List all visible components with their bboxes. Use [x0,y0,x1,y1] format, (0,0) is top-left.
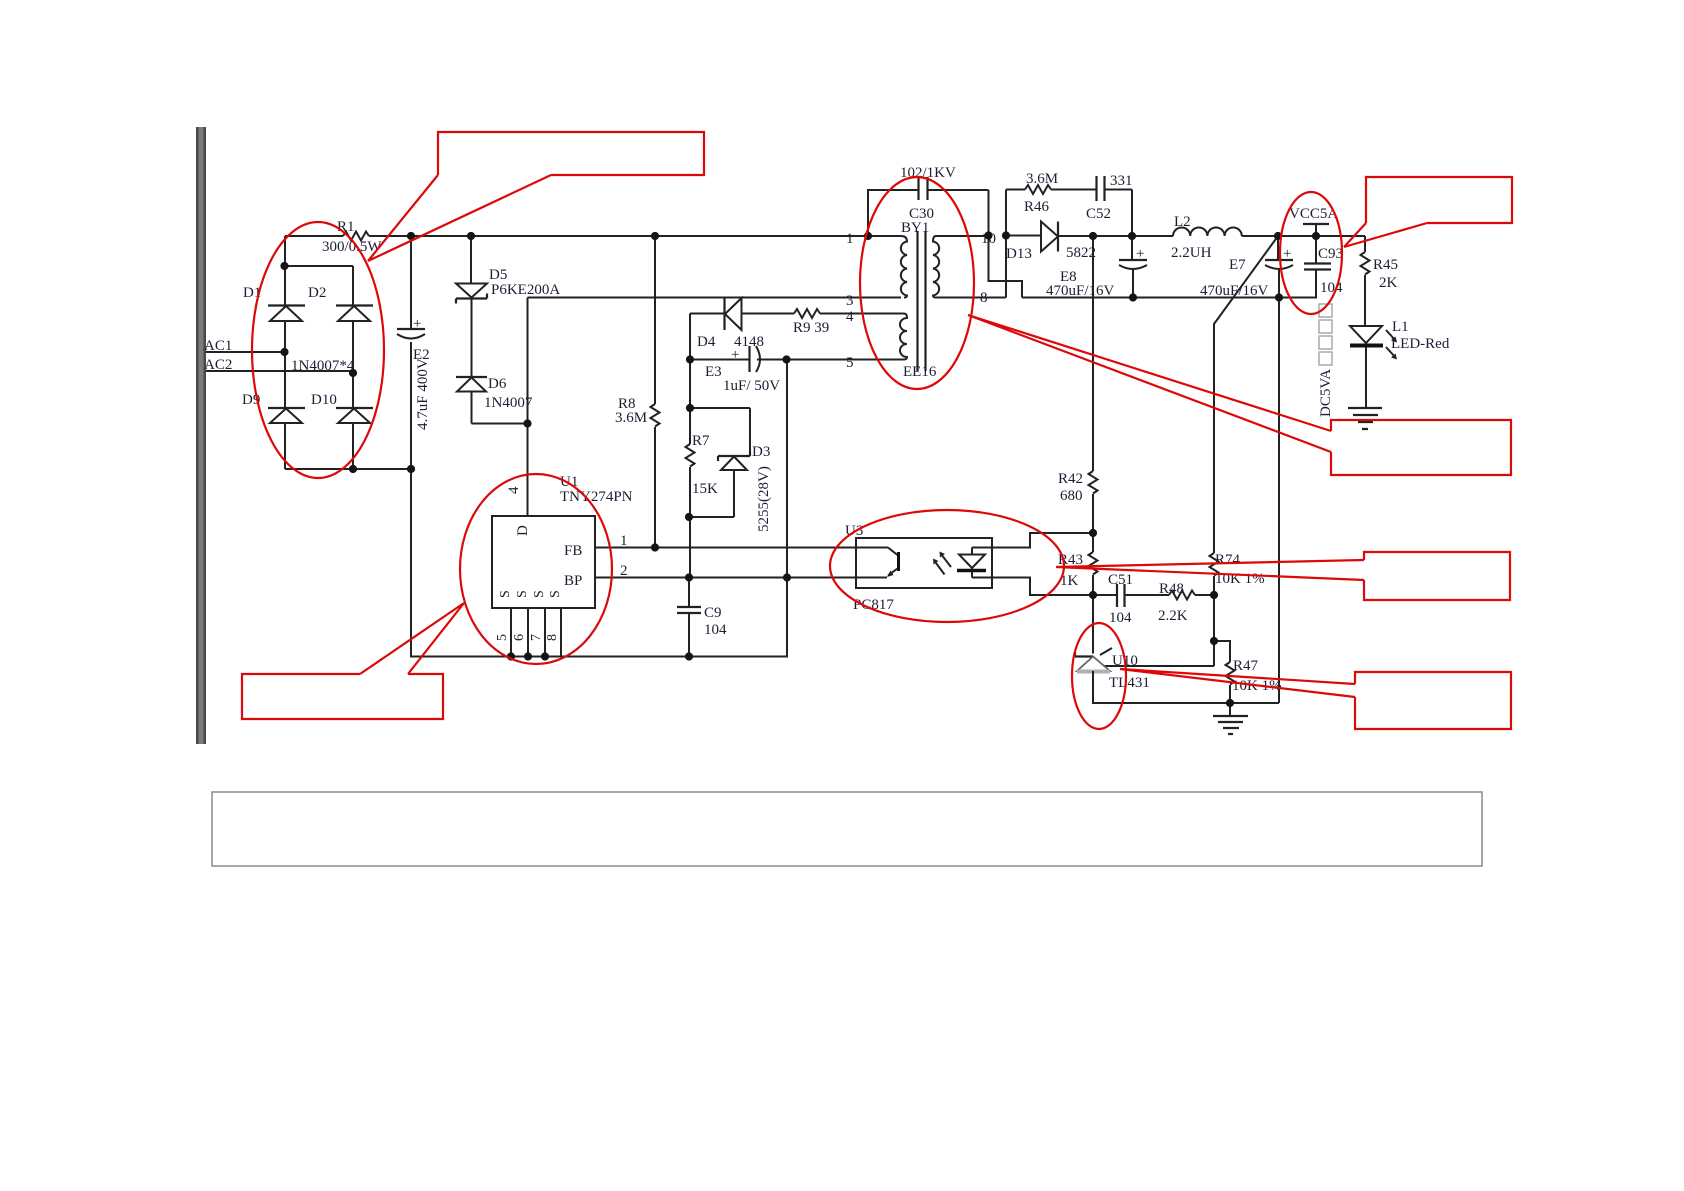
diode D2 [308,285,373,321]
svg-text:C93: C93 [1318,246,1343,262]
svg-text:S: S [532,590,547,598]
svg-text:R42: R42 [1058,471,1083,487]
TL431 U10 [1075,595,1279,703]
svg-text:104: 104 [1320,280,1343,296]
svg-text:1: 1 [846,231,854,247]
bridge rectifier wires [285,236,411,469]
resistor R47 [1214,641,1282,703]
capacitor E7 [1200,236,1293,299]
capacitor C52 [1086,173,1133,236]
svg-text:S: S [498,590,513,598]
wire: BP net [595,577,887,579]
svg-text:2K: 2K [1379,275,1398,291]
annotation ellipse (transformer) [860,177,974,389]
annotation ellipse (PC817) [830,510,1064,622]
callout box (transformer) [968,315,1511,475]
svg-text:TNY274PN: TNY274PN [560,489,633,505]
diode D13 [1006,222,1096,263]
wire: pin8 to D13 riser [1005,190,1007,298]
svg-text:DC5VA: DC5VA [1318,369,1334,417]
svg-text:R47: R47 [1233,658,1259,674]
svg-text:C51: C51 [1108,572,1133,588]
resistor R1 [322,219,382,255]
wire: output ground return drop [1278,298,1280,704]
svg-text:D: D [515,525,531,536]
svg-text:AC2: AC2 [204,357,232,373]
svg-text:331: 331 [1110,173,1133,189]
wire: opto anode to R42/R43 node [972,533,1093,548]
wire: secondary output bottom bus [1022,297,1317,299]
wire: +rail after D13 [1093,235,1365,237]
svg-text:R45: R45 [1373,257,1398,273]
callout box (PC817) [1056,552,1510,600]
resistor R8 [615,236,660,548]
svg-text:1N4007*4: 1N4007*4 [291,358,355,374]
resistor R9 [793,309,904,336]
annotation ellipse (bridge rectifier) [252,222,384,478]
svg-text:3: 3 [846,293,854,309]
diode D4 [690,298,794,360]
diode D9 [242,392,305,423]
vertical gray label DC5VA [1318,304,1334,417]
svg-text:S: S [515,590,530,598]
optocoupler U3 PC817 [845,523,992,613]
wire: FB net [595,547,888,549]
svg-text:L2: L2 [1174,214,1191,230]
wire: AC1 input [206,351,285,353]
bottom caption box [212,792,1482,866]
IC U1 TNY274PN [492,424,633,657]
svg-text:TL431: TL431 [1109,675,1150,691]
callout box (top-left) [368,132,704,261]
callout box (U1) [242,603,464,719]
svg-text:1uF/ 50V: 1uF/ 50V [723,378,780,394]
capacitor C51 [1093,572,1169,626]
svg-text:4: 4 [506,486,522,494]
wire: AC2 input [206,370,353,372]
svg-text:680: 680 [1060,488,1083,504]
capacitor C9 [677,578,727,657]
svg-text:C52: C52 [1086,206,1111,222]
annotation ellipse (VCC5A) [1280,192,1342,314]
svg-text:104: 104 [704,622,727,638]
svg-text:4.7uF 400V: 4.7uF 400V [415,358,431,430]
capacitor E3 [690,346,904,394]
capacitor E8 [1046,236,1147,299]
annotation ellipse (U1) [460,474,612,664]
svg-text:BP: BP [564,573,582,589]
wire: TL431 ref [1104,665,1214,667]
TVS D5 [456,236,560,304]
diode D10 [311,392,373,423]
svg-text:C9: C9 [704,605,722,621]
svg-text:E3: E3 [705,364,722,380]
svg-text:L1: L1 [1392,319,1409,335]
svg-text:+: + [413,316,421,332]
svg-text:AC1: AC1 [204,338,232,354]
svg-text:D3: D3 [752,444,770,460]
svg-text:8: 8 [980,290,988,306]
wire: HV+ top bus [285,235,868,237]
diode D1 [243,285,305,321]
svg-text:EE16: EE16 [903,364,937,380]
svg-text:C30: C30 [909,206,934,222]
resistor R46 [1006,171,1096,215]
transformer BY1 primary winding [846,231,907,309]
svg-text:R7: R7 [692,433,710,449]
svg-text:2.2UH: 2.2UH [1171,245,1212,261]
svg-text:R9 39: R9 39 [793,320,829,336]
svg-text:D13: D13 [1006,246,1032,262]
zener D3 [689,408,772,532]
callout box (TL431) [1120,669,1511,729]
svg-text:E7: E7 [1229,257,1246,273]
junction dots [280,231,1320,707]
svg-text:7: 7 [529,634,544,641]
capacitor C93 [1304,236,1343,298]
wire: opto cathode to TL431 node [972,578,1093,596]
svg-text:1N4007: 1N4007 [484,395,533,411]
svg-text:3.6M: 3.6M [615,410,647,426]
LED L1 [1350,319,1450,408]
svg-text:3.6M: 3.6M [1026,171,1058,187]
transformer BY1 aux winding [787,220,937,380]
svg-text:R74: R74 [1215,552,1241,568]
ground (LED) [1348,408,1382,429]
svg-text:D10: D10 [311,392,337,408]
capacitor E2 [397,236,431,469]
resistor R42 [1058,236,1098,533]
transformer BY1 core [918,231,926,371]
resistor R43 [1058,533,1098,654]
svg-text:R48: R48 [1159,581,1184,597]
svg-text:4: 4 [846,309,854,325]
callout box (VCC5A) [1344,177,1512,247]
svg-text:2.2K: 2.2K [1158,608,1188,624]
transformer BY1 secondary winding [933,231,1006,306]
svg-text:+: + [1136,246,1144,262]
resistor R74 [1210,552,1265,666]
svg-text:5: 5 [495,634,510,641]
wire: remote sense diagonal [1214,236,1278,553]
svg-text:+: + [731,347,739,363]
svg-text:5822: 5822 [1066,245,1096,261]
resistor R45 [1316,236,1398,326]
svg-text:D4: D4 [697,334,716,350]
resistor R48 [1158,581,1214,624]
svg-text:104: 104 [1109,610,1132,626]
svg-text:R46: R46 [1024,199,1050,215]
capacitor C30 snubber [868,165,1022,298]
svg-text:5: 5 [846,355,854,371]
svg-text:+: + [1283,246,1291,262]
inductor L2 [1171,214,1242,261]
svg-text:8: 8 [545,634,560,641]
svg-text:LED-Red: LED-Red [1391,336,1450,352]
svg-text:S: S [548,590,563,598]
svg-text:D5: D5 [489,267,507,283]
svg-text:15K: 15K [692,481,718,497]
svg-text:D6: D6 [488,376,507,392]
VCC5A power symbol [1289,206,1338,236]
svg-text:D2: D2 [308,285,326,301]
ground (feedback) [1213,703,1248,734]
svg-text:6: 6 [512,634,527,641]
left margin bar [196,127,206,744]
annotation ellipse (TL431) [1072,623,1126,729]
resistor R7 [686,360,719,578]
diode D6 [456,299,533,424]
svg-text:470uF/16V: 470uF/16V [1046,283,1115,299]
svg-text:P6KE200A: P6KE200A [491,282,560,298]
svg-text:FB: FB [564,543,582,559]
svg-text:5255(28V): 5255(28V) [756,466,772,532]
wire: drain bus to transformer pin 3 [528,298,902,517]
svg-text:BY1: BY1 [901,220,929,236]
wire: source bottom bus [411,360,787,657]
